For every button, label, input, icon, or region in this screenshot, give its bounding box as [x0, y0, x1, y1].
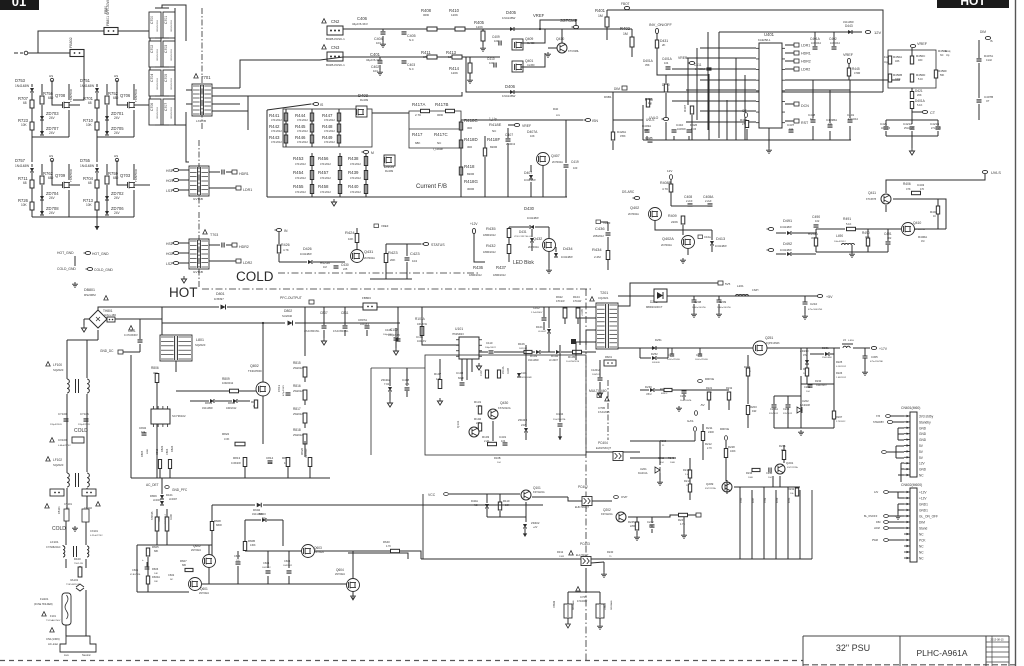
- transistor Q708: [63, 102, 71, 109]
- svg-text:COLD: COLD: [236, 269, 274, 284]
- wire: [178, 262, 189, 264]
- svg-text:D231: D231: [822, 346, 829, 350]
- svg-text:KA40108: KA40108: [800, 404, 811, 407]
- svg-text:10R/2012: 10R/2012: [226, 407, 237, 410]
- terminal CT: [922, 110, 927, 113]
- wire: [639, 348, 641, 358]
- svg-text:HOT: HOT: [169, 285, 198, 300]
- svg-text:SQ2020: SQ2020: [53, 463, 64, 467]
- svg-text:D405: D405: [506, 10, 517, 15]
- terminal HG1: [173, 178, 178, 181]
- terminal 5D: [768, 248, 773, 251]
- tag RST: [794, 119, 799, 123]
- transistor Q404: [357, 109, 365, 116]
- wire: [239, 390, 256, 392]
- wire: [133, 190, 135, 217]
- resistor R411: [427, 55, 437, 59]
- svg-text:VREF: VREF: [843, 53, 854, 57]
- pin 5V CN601: [904, 445, 910, 447]
- svg-text:470: 470: [920, 188, 925, 191]
- svg-text:LDR1: LDR1: [801, 44, 810, 48]
- wire: [783, 445, 785, 450]
- svg-text:AC_DET: AC_DET: [146, 483, 159, 487]
- wire comb 1: [739, 487, 741, 559]
- transformer T702: [189, 166, 209, 196]
- wire: [673, 136, 675, 140]
- wire: [585, 568, 587, 592]
- title block frame: [803, 636, 1009, 666]
- inductor L251: [842, 344, 853, 348]
- wire: [186, 103, 192, 105]
- capacitor C253 el: [698, 348, 702, 356]
- wire: [693, 304, 695, 312]
- transistor Q603 body: [302, 545, 315, 558]
- svg-text:2.7K2012: 2.7K2012: [836, 421, 846, 423]
- wire: [606, 27, 608, 40]
- wire U401 pin row 2: [686, 57, 756, 59]
- transistor Q603: [304, 548, 312, 555]
- svg-text:2W2012: 2W2012: [293, 389, 303, 393]
- capacitor C436: [606, 233, 611, 235]
- svg-text:EL817MCQT: EL817MCQT: [575, 506, 589, 509]
- svg-text:NC: NC: [940, 54, 944, 57]
- svg-text:C10a: C10a: [704, 235, 711, 239]
- diode D802: [288, 321, 293, 326]
- wire: [898, 509, 904, 511]
- svg-text:1N4148W: 1N4148W: [843, 21, 854, 24]
- capacitor CY100: [64, 419, 69, 421]
- resistor ZD10Ar: [497, 370, 500, 378]
- capacitor C419: [564, 165, 569, 167]
- terminal STATUS: [423, 242, 428, 245]
- svg-text:FQPF13N06: FQPF13N06: [766, 342, 780, 345]
- svg-text:104/2012: 104/2012: [830, 42, 841, 45]
- svg-text:R450F: R450F: [938, 69, 947, 73]
- terminal DIM: [985, 36, 990, 39]
- svg-text:1N4148W: 1N4148W: [561, 255, 573, 259]
- svg-text:470.2012: 470.2012: [350, 162, 361, 166]
- terminal COLD_GND: [87, 267, 92, 270]
- svg-text:D101: D101: [166, 493, 173, 497]
- svg-text:470.2012: 470.2012: [320, 176, 331, 180]
- svg-text:R435: R435: [486, 226, 496, 231]
- capacitor CY101 box: [50, 489, 64, 496]
- svg-text:C706: C706: [150, 103, 154, 111]
- diode ZD402b: [388, 387, 392, 391]
- resistor R726: [30, 202, 34, 210]
- svg-text:DRIVE: DRIVE: [705, 377, 714, 381]
- capacitor C700: [149, 12, 161, 38]
- svg-text:U202: U202: [802, 399, 809, 403]
- warning triangle: [50, 438, 54, 442]
- svg-text:+17V: +17V: [879, 347, 888, 351]
- svg-text:KST2222A: KST2222A: [498, 406, 511, 410]
- svg-text:VA101: VA101: [70, 578, 79, 582]
- wire: [304, 377, 306, 382]
- svg-text:C105: C105: [385, 328, 392, 332]
- wire: [539, 20, 541, 29]
- arrow down fb: [558, 436, 562, 440]
- terminal LS1: [173, 188, 178, 191]
- wire: [469, 73, 471, 78]
- wire: [814, 32, 816, 46]
- wire: [670, 192, 672, 206]
- svg-text:100K/2012: 100K/2012: [816, 385, 827, 387]
- wire comb 5: [787, 487, 789, 559]
- ground R107: [437, 398, 442, 405]
- svg-text:HDR1: HDR1: [239, 172, 249, 176]
- svg-text:1K: 1K: [933, 215, 936, 218]
- svg-text:Q401: Q401: [525, 59, 533, 63]
- svg-text:CY100: CY100: [58, 412, 67, 416]
- resistor R606: [146, 576, 149, 584]
- svg-text:100Cu/25V/NL: 100Cu/25V/NL: [695, 359, 709, 361]
- wire: [106, 105, 108, 132]
- wire: [792, 253, 816, 255]
- resistor R607: [185, 568, 193, 571]
- wire: [548, 252, 550, 268]
- svg-text:120K: 120K: [451, 71, 458, 75]
- svg-text:1N4148W: 1N4148W: [15, 84, 29, 88]
- wire: [816, 251, 888, 253]
- svg-text:R434: R434: [592, 247, 602, 252]
- wire: [830, 353, 834, 355]
- transistor Q802: [259, 386, 267, 393]
- svg-text:NC: NC: [170, 579, 174, 581]
- wire: [628, 517, 637, 522]
- svg-text:103: 103: [494, 39, 499, 43]
- svg-text:GND_DC: GND_DC: [100, 349, 114, 353]
- svg-text:C242: C242: [647, 520, 654, 524]
- resistor R236: [752, 468, 760, 471]
- transistor Q709: [63, 182, 71, 189]
- terminal VREF2: [847, 58, 850, 63]
- ground: [634, 535, 640, 540]
- svg-text:R426: R426: [281, 243, 290, 247]
- svg-text:NC: NC: [919, 474, 924, 478]
- svg-text:C305: C305: [871, 355, 878, 359]
- wire: [564, 307, 566, 308]
- svg-text:12V: 12V: [667, 169, 672, 173]
- wire: [911, 131, 913, 136]
- terminal INV_ON/OFF: [655, 28, 658, 33]
- wire: [582, 351, 596, 353]
- wire: [211, 531, 213, 556]
- svg-text:1N4148W: 1N4148W: [780, 248, 792, 252]
- wire: [849, 126, 851, 140]
- svg-text:C210: C210: [810, 302, 818, 306]
- resistor R421: [910, 92, 913, 99]
- svg-text:VCC: VCC: [428, 493, 436, 497]
- capacitor C110b: [571, 339, 576, 344]
- capacitor C603: [236, 562, 241, 564]
- svg-text:104: 104: [664, 61, 669, 65]
- wire: [162, 322, 285, 324]
- wire boost to T201: [311, 306, 592, 308]
- wire: [31, 93, 33, 137]
- svg-text:LDR2: LDR2: [801, 68, 810, 72]
- svg-text:DCN: DCN: [801, 104, 809, 108]
- wire: [768, 140, 770, 148]
- wire: [773, 396, 775, 404]
- wire: [599, 360, 601, 377]
- ground: [377, 70, 383, 75]
- wire right loop: [627, 10, 883, 92]
- wire: [118, 31, 150, 45]
- capacitor C407B: [977, 100, 982, 102]
- capacitor C401b: [848, 120, 853, 122]
- resistor R713: [95, 202, 99, 210]
- warning triangle Y-cap: [576, 587, 580, 591]
- svg-text:D40A: D40A: [471, 499, 478, 503]
- svg-text:104/2012: 104/2012: [811, 42, 822, 45]
- wire: [161, 478, 163, 494]
- svg-text:470.2012: 470.2012: [271, 140, 282, 144]
- wire: [237, 551, 239, 559]
- wire: [541, 351, 555, 353]
- wire: [900, 463, 902, 482]
- capacitor C807A: [365, 326, 370, 328]
- wire: [159, 469, 161, 478]
- warning triangle: [569, 551, 573, 555]
- connector CN1: [60, 636, 96, 652]
- wire: [829, 131, 831, 140]
- capacitor C242: [650, 525, 655, 527]
- connector D80x: [363, 303, 377, 310]
- transistor Q602 body: [203, 555, 216, 568]
- svg-text:1N4148W: 1N4148W: [80, 164, 94, 168]
- title block revision table: [986, 636, 1009, 666]
- transistor Q604 body: [347, 579, 360, 592]
- node tag: [50, 158, 53, 161]
- svg-text:EL817MCQT: EL817MCQT: [596, 446, 612, 450]
- pin 5V CN601: [904, 456, 910, 458]
- resistor R107: [438, 380, 442, 389]
- wire U401 pin row 7: [700, 110, 756, 112]
- wire: [567, 592, 569, 604]
- svg-text:MULTI_460: MULTI_460: [589, 389, 607, 393]
- svg-text:LED Blok: LED Blok: [513, 260, 534, 266]
- wire: [212, 103, 240, 105]
- svg-text:3V3 stdby: 3V3 stdby: [919, 415, 934, 419]
- svg-text:C407B: C407B: [984, 95, 993, 99]
- svg-text:LDR2: LDR2: [243, 261, 252, 265]
- svg-text:D755: D755: [80, 158, 91, 163]
- terminal box: [236, 186, 241, 190]
- transformer L801: [160, 335, 192, 361]
- svg-text:D420A: D420A: [617, 130, 626, 134]
- svg-text:Rx499: Rx499: [360, 98, 369, 102]
- terminal DIMin: [884, 521, 889, 524]
- svg-text:5.1K: 5.1K: [918, 78, 923, 81]
- svg-text:D802: D802: [284, 309, 292, 313]
- svg-text:CN3: CN3: [331, 45, 340, 50]
- wire cap bank to T702: [186, 125, 189, 162]
- wire: [508, 124, 514, 126]
- terminal M: [363, 150, 368, 153]
- capacitor C210 el: [803, 296, 808, 304]
- svg-text:D401A: D401A: [643, 59, 654, 63]
- svg-text:470R: 470R: [854, 71, 860, 75]
- svg-text:R232: R232: [788, 487, 795, 491]
- wire: [618, 295, 654, 297]
- wire: [524, 529, 526, 534]
- diode D434: [554, 253, 558, 257]
- svg-text:Q431: Q431: [364, 250, 373, 254]
- terminal +5V: [817, 294, 822, 297]
- svg-text:7.02: 7.02: [384, 382, 390, 386]
- svg-text:C448: C448: [808, 113, 816, 117]
- ground: [862, 370, 868, 375]
- resistor R608: [210, 522, 213, 531]
- svg-text:2.2uF/630V: 2.2uF/630V: [531, 312, 543, 314]
- svg-text:10-42W/3216: 10-42W/3216: [566, 361, 580, 363]
- tag GND_DC: [118, 350, 123, 354]
- wire: [810, 353, 824, 355]
- svg-text:NC: NC: [919, 545, 924, 549]
- wire ycap top: [568, 591, 600, 593]
- svg-text:2K: 2K: [662, 43, 666, 47]
- svg-text:24V: 24V: [521, 423, 526, 427]
- wire: [911, 48, 913, 56]
- wire: [688, 136, 690, 140]
- wire: [147, 584, 149, 592]
- ground zd402: [387, 400, 392, 407]
- svg-text:D100: D100: [74, 557, 81, 561]
- resistor R605: [146, 548, 149, 556]
- svg-text:1R0: 1R0: [918, 59, 923, 62]
- capacitor C807: [322, 326, 327, 328]
- wire: [406, 262, 408, 279]
- wire: [282, 520, 284, 546]
- svg-text:10W/2012: 10W/2012: [283, 565, 293, 567]
- wire: [385, 244, 387, 253]
- svg-text:GND_PFC: GND_PFC: [172, 488, 188, 492]
- svg-text:R105: R105: [568, 355, 576, 359]
- resistor R723: [30, 122, 34, 130]
- terminal Standby: [887, 420, 892, 423]
- resistor R418F: [483, 148, 486, 156]
- wire: [212, 95, 248, 97]
- svg-text:103: 103: [376, 41, 381, 45]
- svg-text:R104: R104: [573, 295, 580, 299]
- tag drive2: [696, 513, 701, 517]
- svg-text:FB803: FB803: [362, 296, 371, 300]
- svg-text:D421: D421: [915, 89, 923, 93]
- wire: [208, 568, 210, 584]
- wire: [421, 307, 423, 326]
- wire: [747, 376, 749, 404]
- svg-text:PC403: PC403: [580, 542, 590, 546]
- capacitor C408b: [405, 388, 410, 390]
- wire: [636, 531, 638, 535]
- svg-text:FBOT: FBOT: [621, 2, 630, 6]
- diode D407: [529, 175, 533, 179]
- svg-text:Q411: Q411: [868, 191, 876, 195]
- wire: [507, 143, 509, 197]
- wire: [911, 136, 913, 148]
- wire: [888, 515, 904, 517]
- svg-text:R425A: R425A: [320, 261, 331, 265]
- IC U101: [459, 337, 479, 359]
- ground: [676, 406, 682, 411]
- wire: [607, 237, 609, 250]
- wire top run: [343, 28, 625, 30]
- wire: [484, 157, 486, 197]
- resistor R109: [165, 517, 169, 531]
- svg-text:680: 680: [48, 96, 54, 100]
- wire: [612, 92, 614, 132]
- wire main bus r: [591, 558, 812, 560]
- connector FB201: [604, 360, 616, 366]
- terminal PWM: [884, 539, 889, 542]
- diode diode D751: [95, 88, 99, 92]
- wire: [592, 306, 596, 308]
- svg-text:R815: R815: [293, 361, 301, 365]
- ferrite FB607: [596, 604, 604, 618]
- svg-text:D426: D426: [303, 247, 312, 251]
- wire: [406, 391, 408, 397]
- svg-text:2.7K: 2.7K: [415, 113, 421, 117]
- svg-text:D492: D492: [783, 242, 792, 246]
- svg-text:C419: C419: [571, 160, 579, 164]
- wire: [800, 376, 802, 428]
- resistor R762: [40, 176, 44, 184]
- wire comb 6: [799, 490, 801, 559]
- wire: [565, 120, 567, 163]
- wire: [66, 488, 68, 510]
- warning triangle: [590, 297, 594, 301]
- wire: [117, 160, 128, 185]
- wire: [655, 389, 664, 391]
- svg-text:FB606: FB606: [553, 600, 556, 608]
- svg-text:COLD_GND: COLD_GND: [57, 267, 76, 271]
- wire: [612, 141, 614, 150]
- svg-text:R237: R237: [753, 497, 755, 503]
- wire: [166, 509, 168, 517]
- wire: [898, 492, 904, 498]
- svg-text:U101: U101: [455, 327, 463, 331]
- svg-text:Q706: Q706: [120, 93, 131, 98]
- warning triangle: [45, 504, 49, 508]
- svg-text:R106: R106: [518, 342, 525, 346]
- svg-text:C602: C602: [168, 573, 175, 577]
- svg-text:Q432: Q432: [533, 237, 542, 241]
- wire: [226, 244, 232, 246]
- svg-text:R816: R816: [293, 384, 301, 388]
- svg-text:C700: C700: [150, 16, 154, 24]
- wire: [851, 245, 853, 252]
- transistor Q402 body: [649, 208, 662, 221]
- resistor R816: [303, 390, 307, 400]
- svg-text:T703: T703: [210, 233, 218, 237]
- svg-text:100Cu/25V/NL: 100Cu/25V/NL: [667, 359, 681, 361]
- wire: [888, 527, 904, 529]
- terminal VREF: [514, 123, 519, 126]
- wire: [169, 469, 171, 478]
- wire: [542, 166, 544, 197]
- svg-text:1R6: 1R6: [895, 60, 900, 63]
- svg-text:R418C: R418C: [464, 118, 478, 123]
- wire: [725, 441, 727, 448]
- diode D602: [257, 503, 262, 508]
- wire: [867, 229, 869, 238]
- diode D406: [510, 90, 514, 94]
- wire: [559, 345, 561, 422]
- svg-text:OVP: OVP: [621, 495, 627, 499]
- svg-text:R225: R225: [836, 360, 843, 364]
- wire: [304, 441, 306, 457]
